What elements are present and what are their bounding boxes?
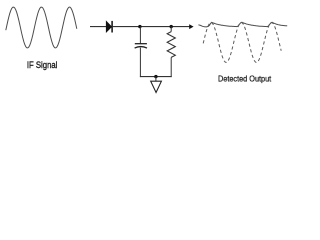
node junction dot at capacitor bbox=[138, 25, 141, 28]
node junction dot bottom bbox=[154, 75, 157, 78]
wire input to diode bbox=[90, 26, 107, 28]
ground symbol bbox=[151, 81, 162, 92]
wire node to capacitor bbox=[139, 27, 141, 44]
resistor R1 bbox=[167, 27, 175, 78]
capacitor C1 bbox=[135, 44, 147, 48]
detected output envelope (solid ripple) bbox=[198, 22, 287, 27]
bottom rail wire bbox=[140, 76, 172, 78]
IF signal sine waveform bbox=[6, 7, 77, 48]
svg-text:Detected Output: Detected Output bbox=[218, 74, 272, 84]
diode D1 bbox=[106, 21, 112, 33]
node junction dot at resistor bbox=[170, 25, 173, 28]
detected output carrier (dashed sine) bbox=[203, 23, 281, 63]
svg-text:IF Signal: IF Signal bbox=[27, 60, 58, 70]
wire diode to output arrow bbox=[113, 26, 190, 28]
wire capacitor to bottom rail bbox=[139, 48, 141, 78]
output arrowhead bbox=[189, 24, 193, 29]
wire to ground bbox=[155, 77, 157, 82]
